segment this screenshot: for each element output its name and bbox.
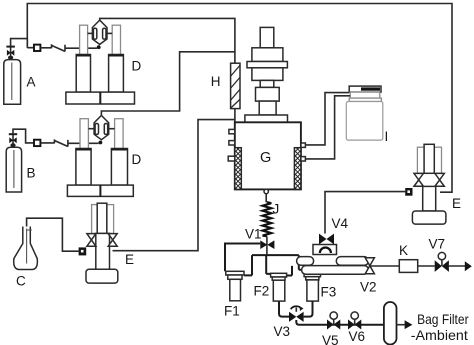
port G right 1 <box>301 143 306 147</box>
pump head D1 diamond <box>88 20 113 49</box>
bag filter vessel <box>384 302 397 345</box>
port G left 2 <box>229 141 235 145</box>
valve V7 <box>435 252 449 271</box>
svg-text:K: K <box>399 243 408 258</box>
svg-text:C: C <box>16 274 26 289</box>
valve V5 <box>327 312 340 330</box>
port G left 1 <box>229 129 235 133</box>
valve V4 <box>313 234 337 255</box>
wire V1 left branch to filter F1 <box>225 244 260 272</box>
bottom outlet of G <box>264 189 268 193</box>
wire C to pump E inlet <box>27 218 79 251</box>
trap tube row 1 right <box>336 257 368 266</box>
svg-text:F1: F1 <box>224 304 240 319</box>
valve V1 <box>260 240 274 249</box>
wire G right port 1 to vessel I <box>305 93 349 145</box>
port G left 3 <box>228 156 235 161</box>
svg-text:A: A <box>27 75 36 90</box>
wire V3 to bag filter line <box>296 320 384 325</box>
inlet fitting pump E right <box>405 188 412 196</box>
pump E left <box>86 203 118 283</box>
valve V3 three-way <box>289 306 304 322</box>
svg-text:F3: F3 <box>321 285 337 300</box>
wire H to reactor G <box>234 109 236 123</box>
trap tube row 1 left <box>297 257 314 266</box>
svg-text:F2: F2 <box>254 284 270 299</box>
svg-text:V2: V2 <box>360 280 377 295</box>
wire bag filter outlet <box>397 324 405 326</box>
inlet fitting pump E left <box>79 247 87 255</box>
svg-text:V3: V3 <box>274 324 291 339</box>
svg-text:-Ambient: -Ambient <box>411 327 468 343</box>
main manifold line <box>244 255 302 275</box>
main outlet line to arrow <box>370 265 465 267</box>
trap tube row 2 <box>302 266 369 275</box>
wire D1 to H <box>100 18 235 63</box>
svg-text:E: E <box>125 252 134 267</box>
svg-text:E: E <box>452 196 461 211</box>
svg-text:Bag Filter: Bag Filter <box>417 311 469 327</box>
wire V4 riser to pump E right inlet <box>325 192 405 234</box>
svg-text:J: J <box>273 202 280 217</box>
wire top loop from gas A junction to right pump E <box>27 4 452 193</box>
svg-text:B: B <box>27 166 36 181</box>
port G right 2 <box>301 157 306 161</box>
valve on cylinder A <box>6 47 15 60</box>
svg-text:D: D <box>132 152 142 167</box>
filter F1 <box>226 271 244 301</box>
wire coil J to valve V1 <box>266 236 268 255</box>
coil J <box>263 202 272 236</box>
filter F2 <box>271 273 287 301</box>
svg-text:I: I <box>385 129 389 144</box>
valve V2 <box>365 258 374 274</box>
svg-text:V4: V4 <box>332 216 349 231</box>
heater H <box>231 63 240 108</box>
vessel I <box>346 86 383 140</box>
regulator square B line <box>34 140 40 146</box>
wire F2 to V3 <box>279 301 289 317</box>
svg-text:V5: V5 <box>322 333 339 345</box>
wire B to regulator <box>13 129 34 143</box>
heating jacket right <box>294 141 301 194</box>
flask C <box>14 227 38 270</box>
wire F3 to V3 <box>304 301 313 317</box>
cylinder B <box>6 147 21 192</box>
svg-text:D: D <box>132 59 142 74</box>
filter F3 <box>304 273 320 301</box>
svg-text:V6: V6 <box>349 329 366 344</box>
svg-text:V1: V1 <box>245 227 262 242</box>
svg-text:G: G <box>260 150 271 166</box>
flex connector A line <box>40 44 97 51</box>
filter K <box>399 260 417 273</box>
pump D2 <box>67 119 133 197</box>
valve on cylinder B <box>9 134 17 147</box>
outlet arrow <box>465 261 472 271</box>
valve V6 <box>348 312 361 330</box>
wire G outlet to coil J <box>265 194 267 203</box>
pump head D2 diamond <box>88 115 114 144</box>
wire A to regulator <box>11 39 34 48</box>
bag filter arrow <box>405 320 413 329</box>
cylinder A <box>4 60 21 105</box>
wire pump E left to reactor G <box>113 120 235 251</box>
svg-text:H: H <box>211 74 221 89</box>
pump E right <box>412 144 446 224</box>
heating jacket left <box>235 141 242 194</box>
flex connector B line <box>40 139 98 146</box>
reactor G <box>235 122 301 189</box>
regulator square A line <box>34 45 40 51</box>
pump D1 <box>66 25 135 104</box>
stirrer motor stack <box>245 27 288 122</box>
wire D2 to H <box>101 52 235 116</box>
wire G right port 2 to vessel I <box>305 96 350 159</box>
svg-text:V7: V7 <box>429 237 446 252</box>
